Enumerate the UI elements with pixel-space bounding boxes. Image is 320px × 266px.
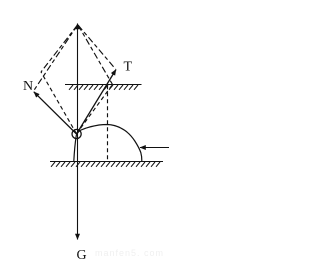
- tension arrow T: [77, 70, 117, 135]
- svg-text:N: N: [23, 79, 33, 94]
- dashed side: N tip to apex: [34, 25, 78, 91]
- horizontal push arrow: [140, 147, 169, 149]
- svg-text:G: G: [77, 248, 87, 263]
- dome: [74, 125, 142, 162]
- dashed side: T' tip to apex: [78, 25, 113, 85]
- dashed N' side (second parallelogram): [41, 72, 77, 134]
- dashed side: N' tip to apex: [41, 25, 78, 72]
- normal force arrow N: [34, 92, 77, 134]
- dashed T' side (second parallelogram): [77, 85, 113, 134]
- dome vertical axis (dashed): [107, 85, 109, 161]
- ball: [72, 129, 81, 138]
- dashed side: T tip to apex: [78, 25, 116, 69]
- weight arrow G: [77, 134, 79, 240]
- ground: [50, 162, 163, 167]
- svg-text:T: T: [124, 60, 133, 75]
- ceiling: [65, 85, 142, 90]
- svg-text:manfen5. com: manfen5. com: [95, 248, 164, 258]
- resultant arrow (up): [77, 24, 79, 135]
